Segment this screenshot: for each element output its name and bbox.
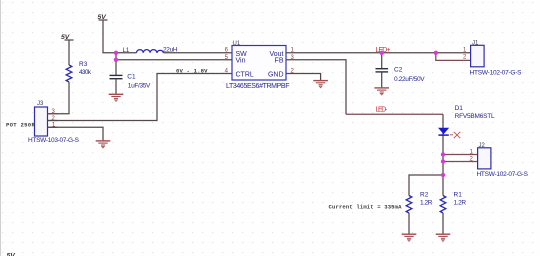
svg-text:CTRL: CTRL: [236, 72, 254, 79]
diode D1: [438, 105, 495, 135]
inductor L1: [123, 47, 178, 55]
capacitor C1: [110, 74, 152, 90]
junction (J1 branch): [434, 51, 438, 55]
junction (J2 pin1): [441, 152, 445, 156]
power 5V (upper): [98, 14, 108, 21]
wire U1 FB to LED- run: [286, 60, 346, 114]
svg-text:R3: R3: [79, 61, 88, 68]
junction (C2 tap): [380, 51, 384, 55]
svg-text:0.22uF/50V: 0.22uF/50V: [394, 76, 425, 83]
svg-text:Current limit = 335mA: Current limit = 335mA: [329, 203, 403, 210]
IC U1: [225, 41, 295, 90]
svg-text:1uF/35V: 1uF/35V: [128, 82, 151, 89]
wire to J2 pin 1: [443, 154, 478, 156]
wire node to L1: [116, 52, 137, 54]
svg-text:C1: C1: [127, 74, 136, 81]
svg-text:R1: R1: [454, 192, 463, 199]
junction (Vin/C1): [114, 58, 118, 62]
svg-text:GND: GND: [268, 72, 284, 79]
wire R1 to ground: [442, 213, 444, 234]
svg-text:5V: 5V: [7, 253, 17, 256]
svg-text:J2: J2: [479, 143, 486, 149]
wire R3 to J3 pin 3: [48, 82, 70, 114]
connector J2: [470, 143, 529, 178]
svg-text:J1: J1: [472, 41, 479, 47]
junction (J2 pin2): [441, 159, 445, 163]
ground (R2): [402, 234, 417, 241]
resistor R1: [440, 192, 466, 214]
power 5V (top left): [61, 34, 74, 41]
wire R2 to ground: [408, 213, 410, 234]
svg-text:LED-: LED-: [376, 107, 388, 114]
svg-text:HTSW-103-07-G-S: HTSW-103-07-G-S: [28, 137, 80, 144]
sheet edge: [0, 0, 2, 256]
wire node to U1 pin 5: [116, 59, 232, 61]
wire J3 pin stubs: [48, 114, 58, 128]
capacitor C2: [376, 53, 426, 88]
svg-text:C2: C2: [394, 66, 403, 73]
junction (R2 branch): [441, 173, 445, 177]
svg-text:D1: D1: [455, 105, 464, 112]
svg-text:430k: 430k: [79, 69, 92, 76]
wire 5V to node: [103, 20, 116, 53]
svg-text:Vin: Vin: [236, 58, 246, 65]
ground (R1): [436, 234, 451, 241]
wire U1 GND to ground: [286, 74, 321, 81]
svg-text:RFV5BM6STL: RFV5BM6STL: [455, 113, 495, 120]
svg-text:LT3465ES6#TRMPBF: LT3465ES6#TRMPBF: [226, 83, 290, 90]
wire C1 to ground: [115, 79, 117, 94]
svg-text:U1: U1: [233, 41, 241, 47]
wire 5V to R3: [68, 40, 70, 65]
resistor R3: [66, 61, 92, 82]
resistor R2: [406, 192, 432, 214]
svg-text:J3: J3: [37, 101, 44, 107]
svg-text:POT 250R: POT 250R: [6, 122, 35, 129]
connector J1: [463, 41, 522, 77]
wire J3 pin 1 to ground: [48, 127, 104, 140]
wire branch to R2: [409, 175, 443, 196]
ground (C1): [109, 94, 124, 101]
ground (U1 GND): [313, 81, 328, 88]
wire LED- run to D1: [346, 113, 443, 115]
svg-text:FB: FB: [275, 58, 284, 65]
no-ERC marker: [450, 132, 461, 138]
svg-text:0V - 1.8V: 0V - 1.8V: [176, 68, 208, 75]
wire branch to J1 pin 2: [436, 53, 471, 61]
wire U1 Vout to J1 pin 1 (LED+): [286, 52, 471, 54]
ground (C2): [374, 88, 389, 95]
wire L1 to U1 pin 6: [164, 52, 233, 54]
junction (5V/L1): [114, 51, 118, 55]
ground (J3 pin 1): [96, 141, 111, 148]
wire node down to C1: [115, 53, 117, 75]
svg-text:HTSW-102-07-G-S: HTSW-102-07-G-S: [470, 70, 523, 77]
svg-text:1.2R: 1.2R: [420, 200, 433, 207]
svg-text:1.2R: 1.2R: [454, 200, 467, 207]
svg-text:L1: L1: [123, 48, 130, 54]
connector J3: [28, 101, 80, 144]
svg-text:R2: R2: [420, 192, 429, 199]
wire to J2 pin 2: [443, 161, 478, 163]
svg-text:HTSW-102-07-G-S: HTSW-102-07-G-S: [477, 171, 529, 178]
wire J3 pin 2 to U1 CTRL: [48, 74, 233, 121]
wire D1 branch vertical: [442, 114, 444, 195]
